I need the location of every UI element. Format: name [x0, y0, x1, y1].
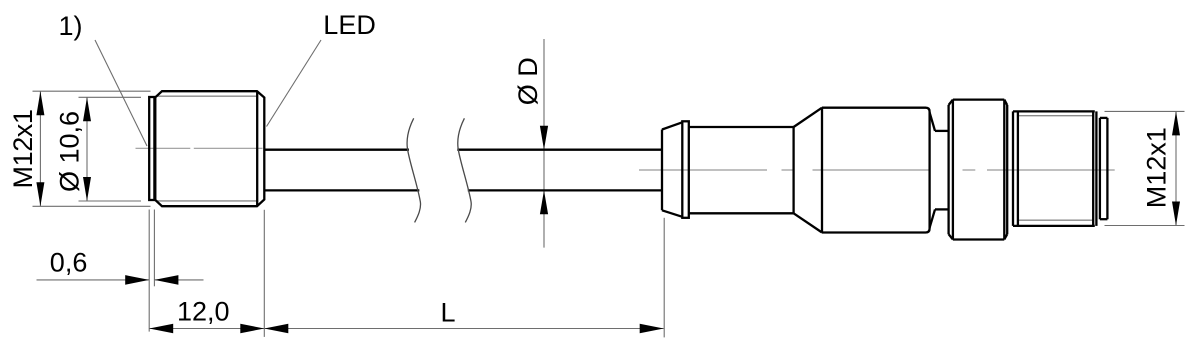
svg-text:0,6: 0,6: [50, 248, 88, 278]
svg-text:M12x1: M12x1: [8, 109, 38, 188]
svg-text:1): 1): [59, 11, 83, 41]
svg-text:12,0: 12,0: [177, 297, 230, 327]
svg-text:Ø D: Ø D: [513, 57, 543, 105]
svg-text:LED: LED: [323, 10, 376, 40]
svg-text:Ø 10,6: Ø 10,6: [54, 111, 84, 192]
svg-text:M12x1: M12x1: [1142, 127, 1172, 208]
svg-text:L: L: [441, 298, 456, 328]
